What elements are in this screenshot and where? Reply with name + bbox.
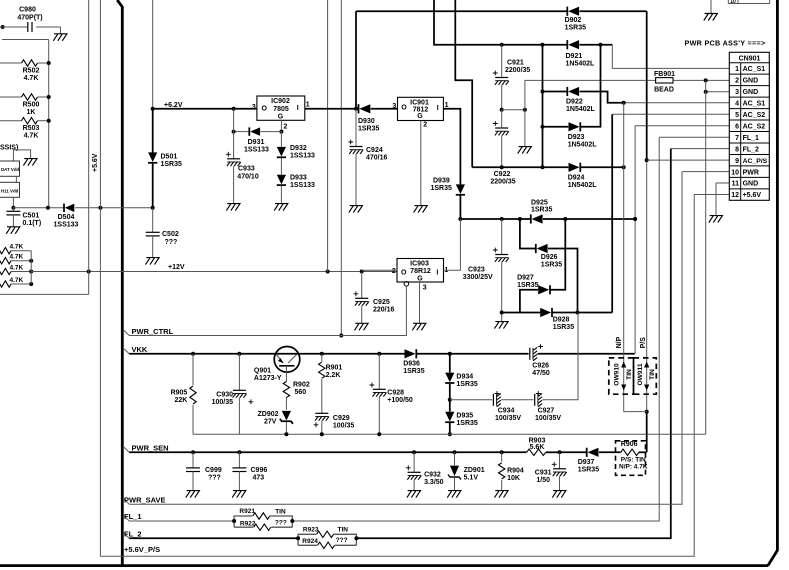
svg-text:C921: C921 bbox=[507, 60, 524, 67]
wire IC902 pin2 bbox=[279, 120, 283, 133]
diode D926 bbox=[520, 219, 578, 313]
svg-text:11: 11 bbox=[732, 181, 740, 188]
svg-text:1SR35: 1SR35 bbox=[456, 420, 478, 427]
svg-text:G: G bbox=[278, 113, 284, 120]
wire VKK to C926 bbox=[450, 353, 529, 355]
svg-text:47/50: 47/50 bbox=[532, 370, 550, 377]
svg-text:C999: C999 bbox=[205, 467, 222, 474]
svg-text:22K: 22K bbox=[174, 397, 187, 404]
svg-text:470/10: 470/10 bbox=[237, 173, 259, 180]
resistor R904 bbox=[499, 452, 524, 490]
svg-text:IC902: IC902 bbox=[271, 98, 290, 105]
capacitor C926 bbox=[530, 344, 635, 377]
svg-text:???: ??? bbox=[208, 474, 221, 481]
svg-text:470P(T): 470P(T) bbox=[17, 15, 42, 22]
svg-text:GND: GND bbox=[743, 181, 759, 188]
op-amp IC902 regulator bbox=[252, 96, 310, 131]
wire C926 to pin6 bbox=[0, 0, 1, 1]
wire IC901 pin2 bbox=[420, 121, 422, 206]
svg-text:D935: D935 bbox=[456, 412, 473, 419]
connector cell DAT Vdd bbox=[0, 161, 20, 176]
svg-text:FL_2: FL_2 bbox=[124, 530, 142, 539]
capacitor C927 bbox=[535, 313, 578, 422]
ground (C980) bbox=[53, 27, 67, 41]
svg-text:1K: 1K bbox=[27, 109, 36, 116]
wire left box top bbox=[2, 39, 49, 41]
svg-text:D925: D925 bbox=[531, 200, 548, 207]
resistor 4.7K stack row 2 bbox=[0, 254, 33, 264]
jumper OW911 bbox=[634, 358, 657, 394]
text PWR PCB ASSY bbox=[685, 38, 766, 47]
diode D935 bbox=[445, 400, 478, 437]
ground (IC901 pin2) bbox=[414, 206, 428, 213]
svg-text:TIN: TIN bbox=[338, 526, 349, 533]
node PWR_SAVE label bbox=[124, 495, 166, 504]
svg-text:+6.2V: +6.2V bbox=[164, 102, 183, 109]
svg-text:D501: D501 bbox=[161, 154, 178, 161]
svg-text:C927: C927 bbox=[538, 407, 555, 414]
svg-text:C922: C922 bbox=[494, 171, 511, 178]
zener ZD902 bbox=[258, 411, 294, 434]
wire pin8 FL_2 drop bbox=[129, 149, 729, 539]
svg-text:1SR35: 1SR35 bbox=[358, 126, 380, 133]
svg-text:???: ??? bbox=[165, 239, 178, 246]
svg-text:D933: D933 bbox=[290, 174, 307, 181]
svg-text:D934: D934 bbox=[456, 373, 473, 380]
ground (C999) bbox=[186, 491, 200, 498]
svg-text:1SR35: 1SR35 bbox=[161, 161, 183, 168]
svg-text:C925: C925 bbox=[373, 299, 390, 306]
diode D927 bbox=[517, 219, 565, 313]
svg-text:C924: C924 bbox=[366, 147, 383, 154]
resistor R502 bbox=[0, 60, 51, 82]
svg-text:TIN: TIN bbox=[626, 369, 633, 380]
capacitor C921 bbox=[493, 45, 531, 110]
svg-text:ZD901: ZD901 bbox=[464, 467, 485, 474]
svg-text:AC_S2: AC_S2 bbox=[743, 112, 766, 119]
wire pin9 line bbox=[647, 159, 730, 161]
svg-text:AC_P/S: AC_P/S bbox=[743, 158, 768, 165]
svg-text:N/P: 4.7K: N/P: 4.7K bbox=[619, 463, 648, 470]
op-amp IC901 regulator bbox=[392, 97, 448, 128]
op-amp IC903 regulator bbox=[392, 259, 449, 292]
svg-text:I: I bbox=[297, 105, 299, 112]
svg-text:VKK: VKK bbox=[132, 345, 148, 354]
svg-text:1SS133: 1SS133 bbox=[244, 147, 269, 154]
node VKK label bbox=[124, 345, 148, 354]
wire thick outer border right bbox=[768, 0, 778, 566]
svg-text:G: G bbox=[417, 113, 423, 120]
svg-text:4.7K: 4.7K bbox=[10, 265, 24, 272]
svg-text:TIN: TIN bbox=[275, 508, 286, 515]
svg-text:4.7K: 4.7K bbox=[10, 244, 24, 251]
svg-text:G: G bbox=[417, 275, 423, 282]
ground (C923) bbox=[494, 322, 508, 329]
svg-text:I: I bbox=[436, 270, 438, 277]
svg-text:1SR35: 1SR35 bbox=[578, 467, 600, 474]
capacitor C933 bbox=[226, 109, 259, 204]
wire IC901 pin1 bbox=[443, 109, 460, 185]
svg-text:R924: R924 bbox=[302, 538, 318, 545]
svg-text:10: 10 bbox=[730, 0, 736, 5]
diode D924 bbox=[568, 163, 626, 189]
svg-text:2: 2 bbox=[423, 122, 427, 129]
svg-text:1/50: 1/50 bbox=[536, 477, 550, 484]
resistor 4.7K stack row 1 bbox=[0, 244, 31, 254]
connector CN901 bbox=[729, 52, 769, 200]
svg-text:+5.6V_P/S: +5.6V_P/S bbox=[124, 545, 160, 554]
svg-text:4.7K: 4.7K bbox=[24, 75, 39, 82]
capacitor C996 bbox=[232, 452, 267, 490]
svg-text:3: 3 bbox=[735, 89, 739, 96]
svg-text:1SR35: 1SR35 bbox=[553, 324, 575, 331]
svg-text:D924: D924 bbox=[568, 174, 585, 181]
svg-text:1SS133: 1SS133 bbox=[290, 153, 315, 160]
svg-text:2: 2 bbox=[392, 268, 396, 275]
svg-text:1SR35: 1SR35 bbox=[431, 185, 453, 192]
svg-text:IC903: IC903 bbox=[410, 261, 429, 268]
svg-text:P/S: TIN: P/S: TIN bbox=[621, 456, 646, 463]
svg-text:C980: C980 bbox=[19, 7, 36, 14]
svg-text:1SR35: 1SR35 bbox=[517, 282, 539, 289]
svg-text:100/35: 100/35 bbox=[333, 422, 355, 429]
wire C934 C927 line bbox=[450, 399, 492, 401]
svg-text:1SR35: 1SR35 bbox=[541, 261, 563, 268]
wire rail 434 bbox=[193, 432, 706, 436]
svg-text:C926: C926 bbox=[532, 362, 549, 369]
svg-text:1SR35: 1SR35 bbox=[531, 207, 553, 214]
svg-text:3.3/50: 3.3/50 bbox=[424, 479, 444, 486]
svg-text:10: 10 bbox=[731, 169, 739, 176]
capacitor C931 bbox=[535, 452, 567, 490]
wire OW910 drop bbox=[624, 103, 647, 412]
wire chassis stub bbox=[12, 150, 14, 161]
svg-text:C930: C930 bbox=[216, 391, 233, 398]
svg-text:P/S: P/S bbox=[640, 337, 647, 349]
svg-text:100/35V: 100/35V bbox=[535, 415, 561, 422]
wire D504 net bbox=[13, 206, 64, 210]
wire rail 44.7 left bbox=[434, 0, 567, 47]
wire FB branch bbox=[524, 80, 526, 146]
wire aux left horizontal bbox=[0, 293, 89, 295]
svg-text:ZD902: ZD902 bbox=[258, 411, 279, 418]
svg-text:7805: 7805 bbox=[273, 106, 289, 113]
svg-text:O: O bbox=[262, 105, 268, 112]
wire VKK rail bbox=[129, 352, 404, 356]
ground (chassis) bbox=[13, 150, 37, 166]
resistor 4.7K stack row 4 bbox=[0, 277, 33, 287]
ground (R904) bbox=[494, 491, 508, 498]
svg-text:C933: C933 bbox=[238, 166, 255, 173]
ground (C933) bbox=[226, 204, 240, 211]
svg-text:2.2K: 2.2K bbox=[326, 372, 341, 379]
svg-text:1: 1 bbox=[735, 66, 739, 73]
svg-text:560: 560 bbox=[295, 389, 307, 396]
svg-text:D936: D936 bbox=[403, 360, 420, 367]
resistor R923 bbox=[296, 526, 358, 545]
resistor R902 bbox=[283, 381, 310, 410]
svg-text:R906: R906 bbox=[621, 441, 638, 448]
wire IC903 pinG bbox=[129, 282, 409, 336]
svg-text:+5.6V: +5.6V bbox=[92, 153, 99, 172]
wire PWR_SEN rail bbox=[129, 450, 526, 454]
wire pin12 +5.6V drop bbox=[100, 195, 729, 557]
wire IC903 pin2 +12V bbox=[362, 269, 397, 271]
capacitor C501 bbox=[6, 208, 41, 227]
node FL_1 label bbox=[124, 512, 142, 521]
wire long vertical A bbox=[327, 0, 329, 272]
wire IC902 pin1 rail bbox=[305, 108, 358, 110]
resistor R503 bbox=[0, 118, 51, 140]
transistor Q901 bbox=[254, 347, 300, 383]
svg-text:N/P: N/P bbox=[616, 336, 623, 348]
capacitor C929 bbox=[314, 413, 355, 434]
svg-text:1SR35: 1SR35 bbox=[403, 368, 425, 375]
svg-text:27V: 27V bbox=[264, 419, 277, 426]
capacitor C928 bbox=[370, 354, 413, 435]
svg-text:7: 7 bbox=[735, 135, 739, 142]
diode D933 bbox=[277, 158, 315, 204]
wire +6.2V feed vertical bbox=[152, 0, 154, 109]
svg-text:R500: R500 bbox=[23, 102, 40, 109]
capacitor C934 bbox=[493, 391, 533, 422]
svg-text:A1273-Y: A1273-Y bbox=[254, 375, 282, 382]
wire to D937 bbox=[560, 451, 587, 453]
svg-text:1SS133: 1SS133 bbox=[54, 222, 79, 229]
svg-text:AC_S2: AC_S2 bbox=[743, 123, 766, 130]
svg-text:GND: GND bbox=[743, 78, 759, 85]
capacitor C924 bbox=[348, 109, 387, 206]
svg-text:AC_S1: AC_S1 bbox=[743, 100, 766, 107]
ground (C996) bbox=[232, 491, 246, 498]
svg-text:DAT Vdd: DAT Vdd bbox=[1, 167, 20, 172]
diode D921 bbox=[566, 40, 613, 67]
svg-text:1N5402L: 1N5402L bbox=[568, 141, 598, 148]
svg-text:1N5402L: 1N5402L bbox=[566, 60, 596, 67]
ground (top right) bbox=[704, 0, 718, 21]
wire vert D921-D924 bbox=[542, 45, 544, 168]
svg-text:2200/35: 2200/35 bbox=[505, 67, 530, 74]
svg-text:78R12: 78R12 bbox=[410, 268, 431, 275]
resistor R905 bbox=[171, 354, 197, 435]
wire pin1 drop bbox=[612, 45, 729, 69]
svg-text:C501: C501 bbox=[23, 213, 40, 220]
resistor R901 bbox=[319, 354, 343, 414]
wire gnd bus vertical bbox=[705, 80, 707, 434]
svg-text:AC_S1: AC_S1 bbox=[743, 66, 766, 73]
svg-text:I: I bbox=[437, 105, 439, 112]
node +6.2V bbox=[151, 102, 183, 111]
svg-text:FB901: FB901 bbox=[654, 71, 675, 78]
diode D501 bbox=[148, 109, 182, 208]
ground (D933) bbox=[274, 204, 288, 211]
svg-text:470/16: 470/16 bbox=[366, 155, 388, 162]
wire to C501 node bbox=[12, 197, 14, 208]
resistor R922 bbox=[234, 520, 292, 531]
capacitor C999 bbox=[186, 452, 222, 490]
ground (C921 mid) bbox=[518, 147, 532, 154]
svg-text:FL_2: FL_2 bbox=[743, 146, 759, 153]
capacitor C932 bbox=[406, 452, 444, 490]
svg-text:12: 12 bbox=[731, 192, 739, 199]
ferrite bead FB901 bbox=[525, 71, 729, 94]
node PWR_SEN label bbox=[124, 444, 169, 453]
svg-text:CN901: CN901 bbox=[739, 56, 761, 63]
wire pin3 gnd bbox=[704, 90, 730, 94]
svg-text:R502: R502 bbox=[23, 68, 40, 75]
svg-text:OW910: OW910 bbox=[613, 363, 620, 386]
ground (C502) bbox=[146, 258, 160, 265]
resistor R906 bbox=[616, 441, 648, 476]
ground (C925) bbox=[354, 323, 368, 330]
svg-text:R503: R503 bbox=[23, 125, 40, 132]
diode D923 bbox=[541, 45, 601, 149]
svg-text:1SS133: 1SS133 bbox=[290, 182, 315, 189]
svg-text:C931: C931 bbox=[535, 469, 552, 476]
svg-text:C502: C502 bbox=[162, 231, 179, 238]
svg-text:2200/35: 2200/35 bbox=[490, 179, 515, 186]
svg-text:D931: D931 bbox=[248, 139, 265, 146]
svg-text:1N5402L: 1N5402L bbox=[568, 182, 598, 189]
svg-text:R922: R922 bbox=[240, 520, 256, 527]
svg-text:5.6K: 5.6K bbox=[530, 444, 545, 451]
svg-text:FL_1: FL_1 bbox=[743, 135, 759, 142]
svg-text:H11 Vdd: H11 Vdd bbox=[1, 189, 19, 194]
svg-text:R921: R921 bbox=[239, 508, 255, 515]
diode D922 bbox=[541, 87, 624, 113]
svg-text:3: 3 bbox=[392, 103, 396, 110]
wire long vertical B bbox=[339, 0, 343, 338]
node N/P label bbox=[616, 336, 623, 348]
svg-text:D926: D926 bbox=[541, 254, 558, 261]
ground (ZD901) bbox=[447, 491, 461, 498]
svg-text:R902: R902 bbox=[293, 381, 310, 388]
svg-text:D927: D927 bbox=[517, 274, 534, 281]
ground (C932) bbox=[407, 491, 421, 498]
zener ZD901 bbox=[448, 452, 485, 490]
capacitor C923 bbox=[463, 219, 509, 322]
wire pin7 FL_1 drop bbox=[129, 137, 729, 521]
wire D902 rail bbox=[356, 10, 567, 12]
svg-text:3: 3 bbox=[252, 104, 256, 111]
wire IC903 pin1 bbox=[444, 219, 461, 270]
svg-text:C928: C928 bbox=[387, 389, 404, 396]
svg-text:O: O bbox=[401, 105, 407, 112]
svg-text:D922: D922 bbox=[566, 98, 583, 105]
svg-text:R901: R901 bbox=[326, 364, 343, 371]
capacitor C922 bbox=[490, 110, 515, 186]
svg-text:10K: 10K bbox=[507, 475, 520, 482]
wire pin4 line bbox=[622, 101, 730, 105]
svg-text:8: 8 bbox=[735, 146, 739, 153]
wire top net D902 bbox=[355, 11, 357, 109]
diode D930 bbox=[354, 104, 398, 132]
resistor R924 bbox=[298, 537, 356, 549]
svg-text:D921: D921 bbox=[566, 53, 583, 60]
wire left bus vertical bbox=[48, 40, 50, 208]
svg-text:2: 2 bbox=[735, 78, 739, 85]
capacitor C930 bbox=[212, 354, 254, 435]
diode D932 bbox=[277, 132, 315, 160]
node FL_2 label bbox=[124, 530, 142, 539]
wire pin10 PWR drop bbox=[129, 172, 729, 505]
wire +12V rail bbox=[31, 264, 397, 274]
svg-text:1: 1 bbox=[306, 102, 310, 109]
svg-text:PWR_CTRL: PWR_CTRL bbox=[132, 327, 174, 336]
svg-text:2: 2 bbox=[284, 124, 288, 131]
ground (C931) bbox=[552, 491, 566, 498]
wire D504 to D501 node bbox=[75, 206, 155, 210]
svg-text:BEAD: BEAD bbox=[654, 86, 674, 93]
connector partial top box bbox=[728, 0, 769, 5]
wire pin5 drop bbox=[612, 114, 730, 312]
node PWR_CTRL label bbox=[124, 327, 174, 336]
svg-text:+5.6V: +5.6V bbox=[743, 192, 762, 199]
diode D925 bbox=[531, 200, 637, 224]
svg-text:C923: C923 bbox=[468, 266, 485, 273]
svg-text:GND: GND bbox=[743, 89, 759, 96]
capacitor C502 bbox=[146, 208, 179, 258]
resistor R500 bbox=[0, 94, 51, 116]
diode D936 bbox=[403, 349, 452, 375]
ground (pin11) bbox=[709, 216, 723, 223]
resistor 4.7K stack row 3 bbox=[0, 265, 33, 275]
svg-text:D939: D939 bbox=[433, 178, 450, 185]
svg-text:D923: D923 bbox=[568, 134, 585, 141]
wire 4.7K stack bus bbox=[30, 251, 32, 284]
wire AC_P/S vertical bbox=[645, 11, 649, 452]
svg-text:C929: C929 bbox=[333, 415, 350, 422]
svg-text:D937: D937 bbox=[578, 459, 595, 466]
wire +5.6V net vertical bbox=[92, 0, 100, 556]
svg-text:0.1(T): 0.1(T) bbox=[23, 220, 42, 227]
svg-text:Q901: Q901 bbox=[254, 367, 271, 374]
svg-text:IC901: IC901 bbox=[410, 99, 429, 106]
node P/S label bbox=[640, 337, 647, 349]
wire pin11 GND drop bbox=[716, 183, 729, 216]
svg-text:6: 6 bbox=[735, 123, 739, 130]
diode D928 bbox=[502, 308, 613, 331]
wire mid rail 167 bbox=[472, 165, 568, 169]
node SG in (top-left wire) bbox=[0, 25, 27, 29]
svg-text:5.1V: 5.1V bbox=[464, 475, 479, 482]
svg-text:9: 9 bbox=[735, 158, 739, 165]
ground (C924) bbox=[349, 206, 363, 213]
wire pin6 drop bbox=[633, 126, 729, 354]
wire aux left vertical bbox=[88, 0, 90, 294]
diode D934 bbox=[445, 354, 478, 402]
svg-text:R923: R923 bbox=[303, 526, 319, 533]
svg-text:D930: D930 bbox=[358, 118, 375, 125]
wire rail 219 left bbox=[458, 217, 530, 221]
svg-text:FL_1: FL_1 bbox=[124, 512, 142, 521]
ground (C501) bbox=[6, 227, 20, 234]
svg-text:PWR PCB ASS'Y ===>: PWR PCB ASS'Y ===> bbox=[685, 38, 766, 47]
svg-text:D932: D932 bbox=[290, 145, 307, 152]
svg-text:473: 473 bbox=[253, 474, 265, 481]
svg-text:3: 3 bbox=[423, 284, 427, 291]
diode D937 bbox=[578, 448, 621, 474]
ground (IC903 pin3) bbox=[412, 323, 426, 330]
svg-text:1N5402L: 1N5402L bbox=[566, 106, 596, 113]
node (CHASSIS) label bbox=[0, 144, 18, 151]
svg-text:3300/25V: 3300/25V bbox=[463, 274, 493, 281]
svg-text:100/35V: 100/35V bbox=[495, 415, 521, 422]
svg-text:PWR_SEN: PWR_SEN bbox=[132, 444, 169, 453]
diode D939 bbox=[431, 178, 466, 220]
svg-text:+12V: +12V bbox=[168, 264, 185, 271]
svg-text:100/35: 100/35 bbox=[212, 399, 234, 406]
